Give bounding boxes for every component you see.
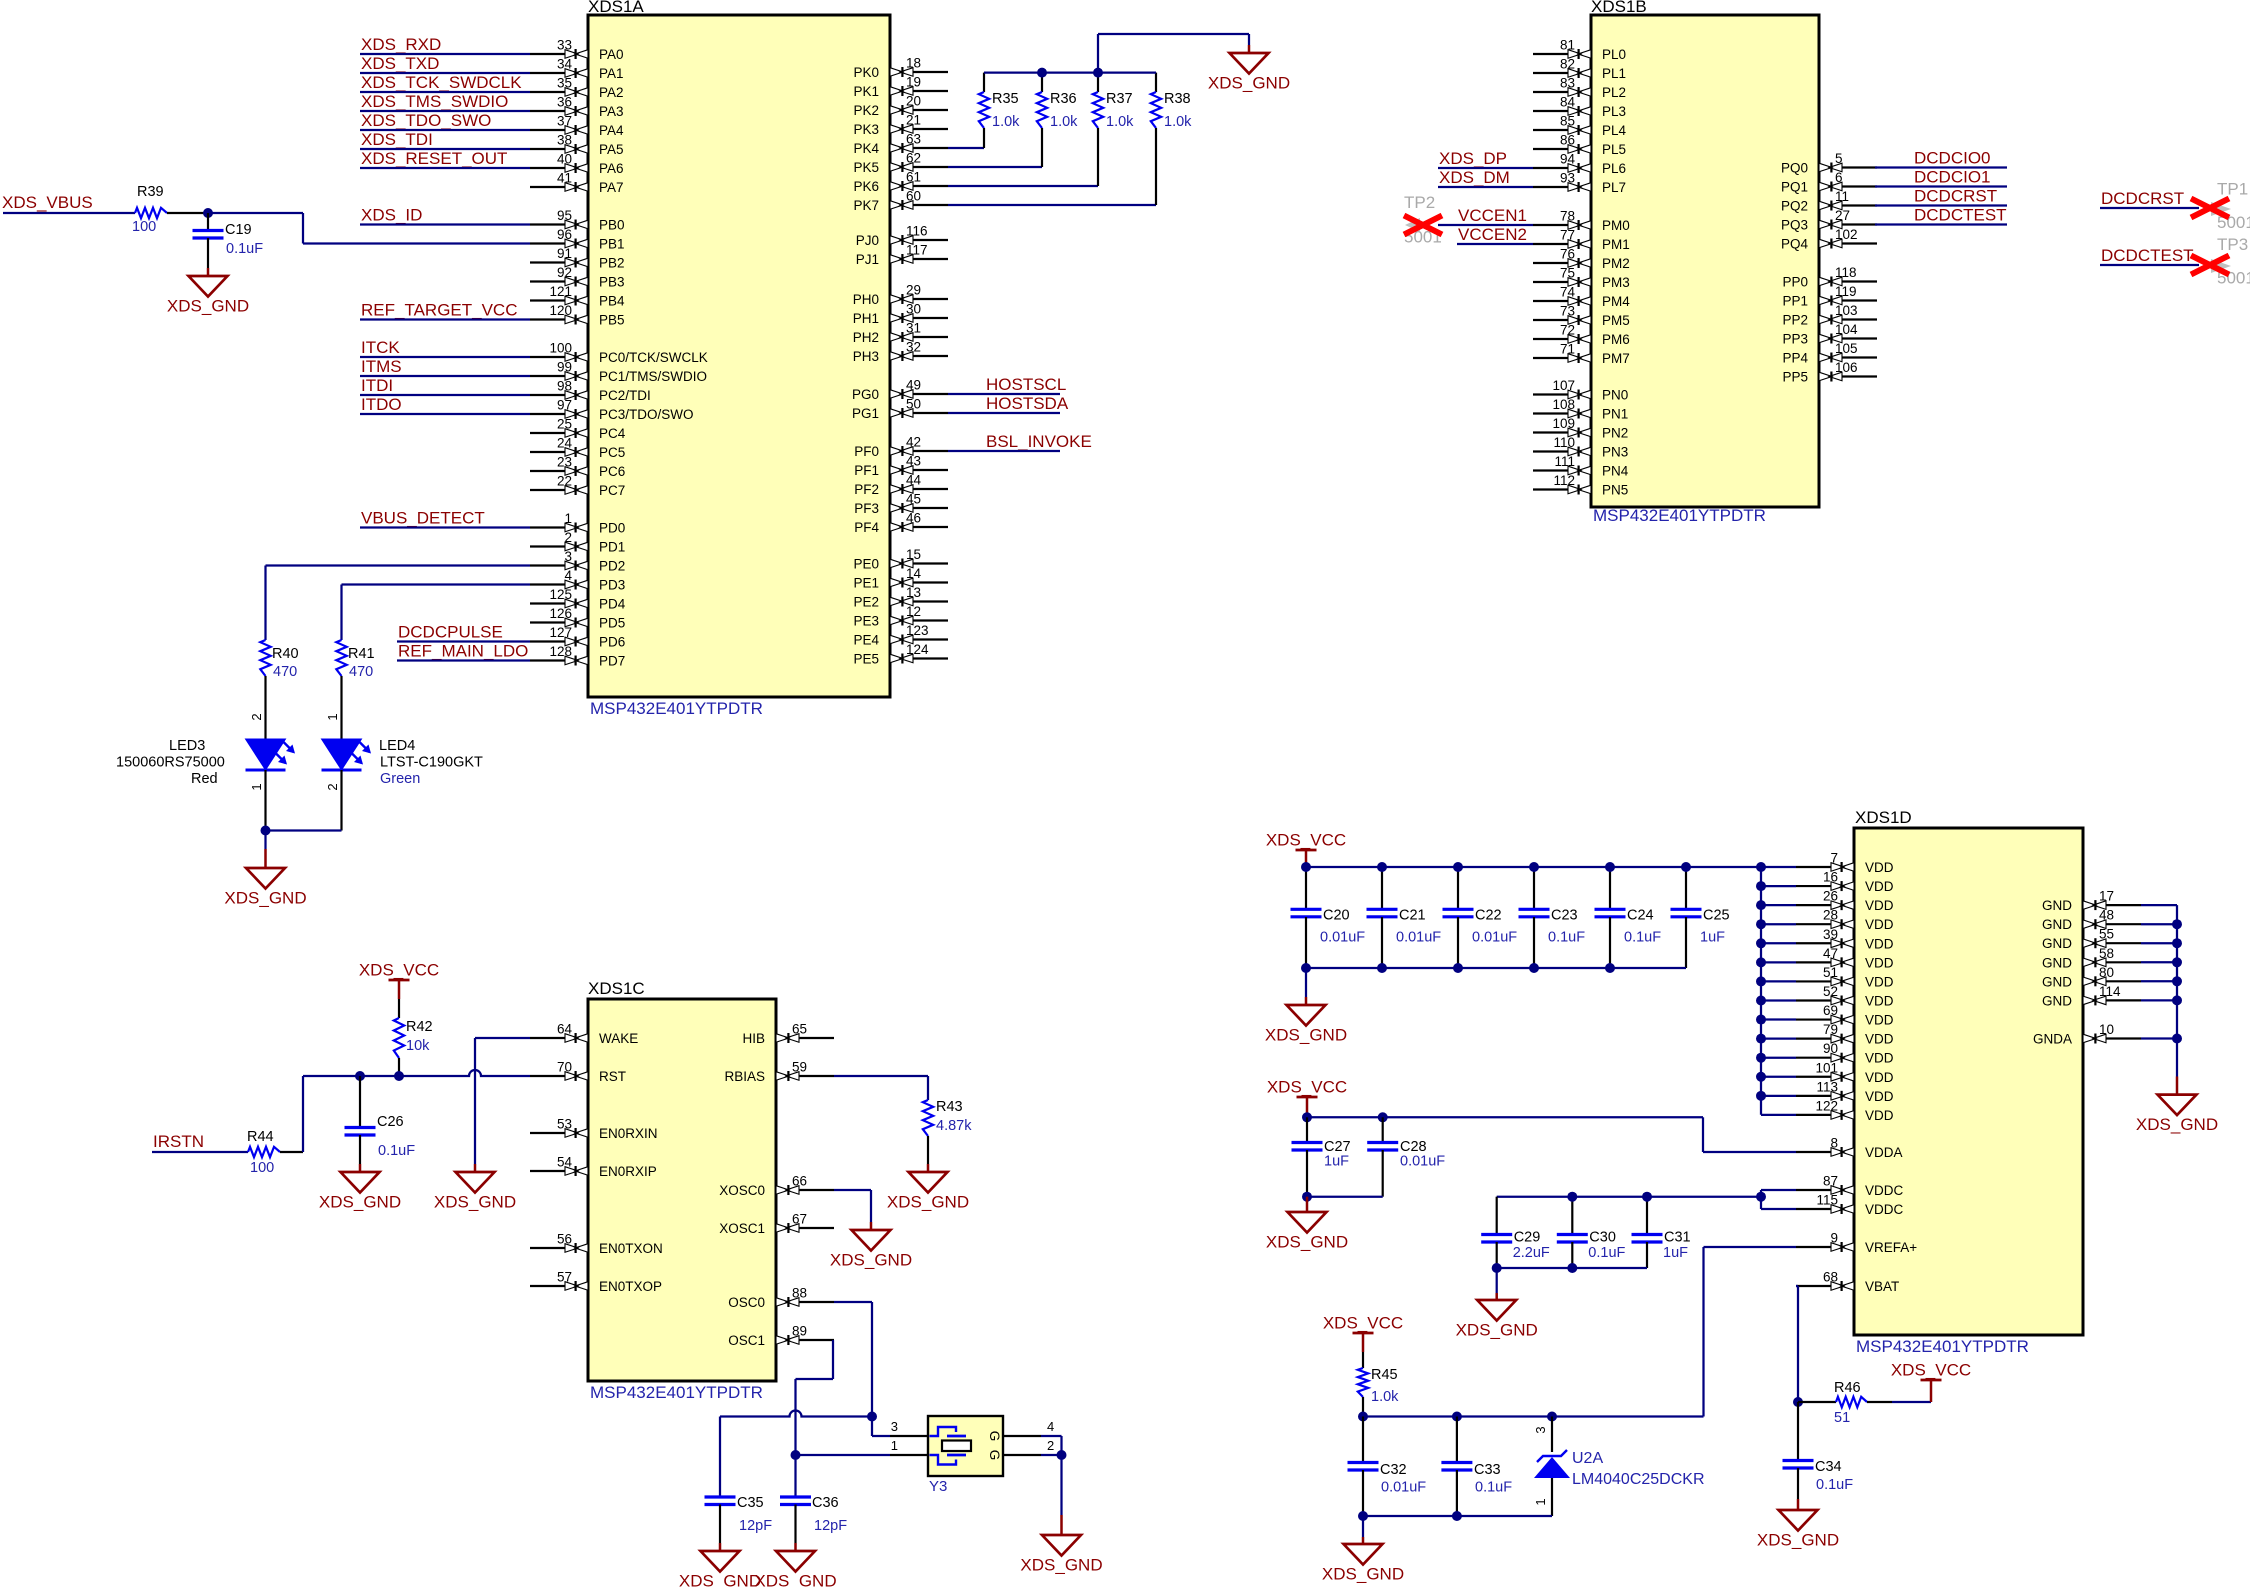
pin 106 PP5 — [1782, 360, 1877, 385]
wire XOSC0 to ground — [834, 1190, 871, 1222]
pin 45 PF3 — [854, 492, 948, 517]
svg-text:PP0: PP0 — [1782, 275, 1808, 290]
svg-text:2: 2 — [325, 783, 340, 790]
pin 41 PA7 — [530, 171, 624, 196]
svg-text:DCDCPULSE: DCDCPULSE — [398, 623, 503, 642]
junction VCC rail cap — [1681, 862, 1691, 872]
capacitor C21 0.01uF — [1367, 867, 1442, 968]
wire VDD bus — [1761, 867, 1796, 1115]
svg-text:PF0: PF0 — [854, 444, 879, 459]
svg-text:PB5: PB5 — [599, 313, 625, 328]
svg-text:PK1: PK1 — [853, 84, 879, 99]
svg-text:123: 123 — [906, 623, 929, 638]
pin 102 PQ4 — [1781, 227, 1877, 252]
svg-text:PD1: PD1 — [599, 540, 625, 555]
svg-text:PK0: PK0 — [853, 65, 879, 80]
svg-text:XDS_VCC: XDS_VCC — [1266, 831, 1346, 850]
svg-text:1: 1 — [1533, 1498, 1548, 1505]
pin 63 PK4 — [853, 132, 948, 157]
capacitor C33 0.1uF — [1441, 1417, 1512, 1517]
pin 89 OSC1 — [728, 1324, 834, 1349]
wire PK4 to R35 — [948, 147, 984, 149]
pin 31 PH2 — [853, 321, 948, 346]
svg-text:C31: C31 — [1664, 1230, 1691, 1246]
pin 50 PG1 — [852, 397, 948, 422]
pin 32 PH3 — [853, 340, 948, 365]
ground XDS_GND (C27) — [1306, 1197, 1309, 1212]
svg-text:GND: GND — [2042, 955, 2072, 970]
net label DCDCIO0 — [1875, 149, 2007, 168]
svg-text:83: 83 — [1560, 76, 1575, 91]
pin 117 PJ1 — [856, 243, 948, 268]
svg-text:XDS_VBUS: XDS_VBUS — [2, 193, 93, 212]
test point TP1 5001 with net DCDCRST — [2100, 180, 2250, 233]
svg-text:PQ1: PQ1 — [1781, 180, 1808, 195]
resistor R41 470 — [336, 640, 374, 739]
svg-text:PQ2: PQ2 — [1781, 199, 1808, 214]
wire VCC rail to VDD bus — [1306, 866, 1761, 868]
svg-text:0.1uF: 0.1uF — [226, 241, 263, 257]
wire C27/C28 bottom — [1307, 1196, 1383, 1198]
net label XDS_DP — [1438, 149, 1533, 168]
svg-text:45: 45 — [906, 492, 921, 507]
pin 2 Y3 — [1003, 1438, 1054, 1455]
pin 113 VDD — [1796, 1079, 1894, 1104]
svg-text:2: 2 — [249, 713, 264, 720]
pin 100 PC0/TCK/SWCLK — [530, 341, 708, 366]
svg-text:PC6: PC6 — [599, 464, 625, 479]
svg-text:PC0/TCK/SWCLK: PC0/TCK/SWCLK — [599, 350, 708, 365]
svg-text:12pF: 12pF — [739, 1518, 772, 1534]
svg-text:PL4: PL4 — [1602, 123, 1627, 138]
svg-text:C21: C21 — [1399, 908, 1426, 924]
junction VDD bus top — [1756, 862, 1766, 872]
svg-text:82: 82 — [1560, 57, 1575, 72]
junction VCC rail cap — [1377, 862, 1387, 872]
svg-text:10: 10 — [2099, 1022, 2114, 1037]
svg-text:XDS1D: XDS1D — [1855, 808, 1912, 827]
net label VCCEN2 — [1457, 225, 1533, 244]
pin 71 PM7 — [1533, 342, 1630, 367]
pin 34 PA1 — [530, 57, 624, 82]
svg-text:109: 109 — [1552, 416, 1575, 431]
pin 115 VDDC — [1796, 1193, 1904, 1218]
svg-text:PD4: PD4 — [599, 597, 626, 612]
svg-text:TP3: TP3 — [2217, 235, 2248, 254]
pin 125 PD4 — [530, 587, 626, 612]
net label ITDO — [360, 395, 530, 414]
resistor R38 1.0k — [1151, 73, 1192, 205]
svg-text:36: 36 — [557, 95, 572, 110]
svg-text:XOSC0: XOSC0 — [719, 1183, 765, 1198]
svg-text:XDS_GND: XDS_GND — [1322, 1565, 1404, 1584]
junction OSC1/C36 node — [791, 1450, 801, 1460]
pin 73 PM5 — [1533, 304, 1630, 329]
pin 56 EN0TXON — [530, 1232, 663, 1257]
pin 69 VDD — [1796, 1003, 1894, 1028]
net label XDS_RXD — [360, 35, 530, 54]
pin 90 VDD — [1796, 1041, 1894, 1066]
pin 9 VREFA+ — [1796, 1231, 1917, 1256]
ground XDS_GND (C19) — [207, 268, 210, 276]
svg-text:PJ0: PJ0 — [856, 233, 879, 248]
wire PK6 to R37 — [948, 185, 1098, 187]
svg-text:44: 44 — [906, 473, 922, 488]
svg-text:55: 55 — [2099, 927, 2114, 942]
net label ITMS — [360, 357, 530, 376]
pin 7 VDD — [1796, 851, 1894, 876]
svg-text:DCDCIO0: DCDCIO0 — [1914, 149, 1991, 168]
resistor R42 10k — [394, 1018, 433, 1076]
svg-text:GND: GND — [2042, 898, 2072, 913]
svg-text:XDS_GND: XDS_GND — [887, 1193, 969, 1212]
junction VDD bus — [1756, 1091, 1766, 1101]
svg-text:PN5: PN5 — [1602, 483, 1628, 498]
svg-text:62: 62 — [906, 151, 921, 166]
svg-text:PK2: PK2 — [853, 103, 879, 118]
svg-text:PL5: PL5 — [1602, 142, 1626, 157]
svg-text:46: 46 — [906, 511, 921, 526]
svg-text:61: 61 — [906, 170, 921, 185]
wire C32/C33/U2A bottom rail — [1363, 1515, 1552, 1517]
capacitor C32 0.01uF — [1348, 1417, 1427, 1517]
svg-text:16: 16 — [1823, 870, 1838, 885]
pin 1 PD0 — [530, 511, 625, 536]
svg-text:13: 13 — [906, 585, 921, 600]
net label XDS_TDO_SWO — [360, 111, 530, 130]
junction VDD bus — [1756, 1053, 1766, 1063]
pin 35 PA2 — [530, 76, 624, 101]
svg-text:41: 41 — [557, 171, 572, 186]
svg-text:1uF: 1uF — [1700, 930, 1725, 946]
svg-text:95: 95 — [557, 208, 572, 223]
svg-text:GND: GND — [2042, 993, 2072, 1008]
svg-text:PM3: PM3 — [1602, 275, 1630, 290]
svg-text:0.01uF: 0.01uF — [1400, 1154, 1445, 1170]
svg-text:XDS_TDI: XDS_TDI — [361, 130, 433, 149]
svg-text:81: 81 — [1560, 38, 1575, 53]
junction GND bus — [2172, 976, 2182, 986]
junction C26 top — [355, 1071, 365, 1081]
junction VDD bus — [1756, 957, 1766, 967]
wire crystal top rail (hop over OSC1) — [720, 1411, 872, 1417]
svg-text:XDS_GND: XDS_GND — [1020, 1556, 1102, 1575]
svg-text:117: 117 — [906, 243, 928, 258]
pin 108 PN1 — [1533, 397, 1628, 422]
ground XDS_GND (C29) — [1496, 1268, 1498, 1300]
svg-text:11: 11 — [1835, 189, 1849, 204]
svg-text:XDS_GND: XDS_GND — [224, 889, 306, 908]
resistor R43 4.87k — [923, 1099, 972, 1164]
svg-text:XDS_GND: XDS_GND — [1266, 1233, 1348, 1252]
pin 15 PE0 — [853, 547, 948, 572]
svg-text:33: 33 — [557, 38, 572, 53]
svg-text:12: 12 — [906, 604, 921, 619]
svg-text:43: 43 — [906, 454, 921, 469]
svg-text:XDS_GND: XDS_GND — [1456, 1321, 1538, 1340]
junction GND bus — [2172, 938, 2182, 948]
svg-text:0.1uF: 0.1uF — [378, 1143, 415, 1159]
junction R42 bottom — [394, 1071, 404, 1081]
svg-text:79: 79 — [1823, 1022, 1838, 1037]
svg-text:3: 3 — [891, 1419, 898, 1434]
power XDS_VCC (C20 bank) — [1266, 831, 1346, 868]
svg-text:PB1: PB1 — [599, 237, 625, 252]
pin 21 PK3 — [853, 113, 948, 138]
svg-text:Y3: Y3 — [929, 1478, 947, 1495]
junction GND bus — [2172, 995, 2182, 1005]
net label REF_MAIN_LDO — [397, 642, 530, 661]
svg-text:121: 121 — [549, 284, 572, 299]
pin 105 PP4 — [1782, 341, 1877, 366]
pin 3 PD2 — [530, 549, 625, 574]
pin 1 Y3 — [890, 1438, 928, 1455]
svg-text:96: 96 — [557, 227, 572, 242]
pin 62 PK5 — [853, 151, 948, 176]
svg-text:MSP432E401YTPDTR: MSP432E401YTPDTR — [590, 1383, 763, 1402]
svg-text:C35: C35 — [737, 1495, 764, 1511]
svg-text:VDD: VDD — [1865, 1032, 1894, 1047]
pin 88 OSC0 — [728, 1286, 834, 1311]
svg-text:XDS_VCC: XDS_VCC — [1891, 1361, 1971, 1380]
svg-text:XDS_GND: XDS_GND — [830, 1251, 912, 1270]
svg-text:PA4: PA4 — [599, 123, 624, 138]
svg-text:PF4: PF4 — [854, 520, 879, 535]
svg-text:42: 42 — [906, 435, 921, 450]
ground XDS_GND (C35) — [719, 1543, 722, 1551]
junction VDD bus — [1756, 919, 1766, 929]
pin 5 PQ0 — [1781, 151, 1877, 176]
ground XDS_GND (C26) — [359, 1164, 362, 1172]
svg-text:100: 100 — [549, 341, 572, 356]
capacitor C28 0.01uF — [1367, 1117, 1445, 1196]
junction C30 top — [1567, 1192, 1577, 1202]
svg-text:57: 57 — [557, 1270, 572, 1285]
power XDS_VCC (R45) — [1323, 1314, 1403, 1361]
svg-text:RST: RST — [599, 1069, 626, 1084]
svg-text:118: 118 — [1835, 265, 1857, 280]
pin 16 VDD — [1796, 870, 1894, 895]
svg-text:VCCEN1: VCCEN1 — [1458, 206, 1527, 225]
pin 64 WAKE — [530, 1022, 638, 1047]
svg-text:C23: C23 — [1551, 908, 1578, 924]
pin 18 PK0 — [853, 56, 948, 81]
pin 13 PE2 — [853, 585, 948, 610]
svg-text:HIB: HIB — [742, 1031, 765, 1046]
svg-text:R42: R42 — [406, 1019, 433, 1035]
svg-text:90: 90 — [1823, 1041, 1838, 1056]
svg-text:XDS_GND: XDS_GND — [1265, 1026, 1347, 1045]
svg-text:PB4: PB4 — [599, 294, 625, 309]
pin 4 PD3 — [530, 568, 625, 593]
svg-text:3: 3 — [564, 549, 572, 564]
svg-text:40: 40 — [557, 152, 572, 167]
junction VDD bus — [1756, 900, 1766, 910]
junction GNDA — [2172, 1034, 2182, 1044]
net label XDS_TCK_SWDCLK — [360, 73, 530, 92]
svg-text:49: 49 — [906, 378, 921, 393]
svg-text:PE3: PE3 — [853, 614, 879, 629]
svg-text:14: 14 — [906, 566, 922, 581]
pin 128 PD7 — [530, 644, 625, 669]
svg-text:108: 108 — [1552, 397, 1575, 412]
junction LED ground node — [261, 826, 271, 836]
resistor R40 470 — [260, 640, 298, 739]
svg-text:VBUS_DETECT: VBUS_DETECT — [361, 509, 485, 528]
pin 77 PM1 — [1533, 228, 1630, 253]
svg-text:ITDO: ITDO — [361, 395, 402, 414]
svg-text:101: 101 — [1815, 1060, 1838, 1075]
svg-text:74: 74 — [1560, 285, 1576, 300]
svg-text:1.0k: 1.0k — [1050, 114, 1078, 130]
capacitor C35 12pF — [705, 1495, 773, 1543]
capacitor C30 0.1uF — [1557, 1197, 1626, 1268]
pin 124 PE5 — [853, 642, 948, 667]
svg-text:R39: R39 — [137, 184, 164, 200]
svg-text:21: 21 — [906, 113, 921, 128]
svg-text:R46: R46 — [1834, 1380, 1861, 1396]
pin 109 PN2 — [1533, 416, 1628, 441]
svg-text:470: 470 — [273, 664, 297, 680]
svg-text:EN0TXOP: EN0TXOP — [599, 1279, 662, 1294]
pin 11 PQ2 — [1781, 189, 1877, 214]
svg-text:116: 116 — [906, 224, 928, 239]
svg-text:R38: R38 — [1164, 91, 1191, 107]
svg-text:PD5: PD5 — [599, 616, 625, 631]
pin 43 PF1 — [854, 454, 948, 479]
svg-text:Green: Green — [380, 771, 420, 787]
svg-text:C34: C34 — [1815, 1459, 1842, 1475]
pin 57 EN0TXOP — [530, 1270, 662, 1295]
svg-text:94: 94 — [1560, 152, 1576, 167]
svg-text:1.0k: 1.0k — [1164, 114, 1192, 130]
wire VDDA rail — [1307, 1117, 1796, 1152]
junction VCC rail cap — [1605, 862, 1615, 872]
svg-text:103: 103 — [1835, 303, 1858, 318]
ground XDS_GND (R43) — [927, 1164, 930, 1172]
svg-text:4: 4 — [564, 568, 572, 583]
svg-text:C25: C25 — [1703, 908, 1730, 924]
svg-text:EN0RXIP: EN0RXIP — [599, 1164, 657, 1179]
svg-text:85: 85 — [1560, 114, 1575, 129]
svg-text:105: 105 — [1835, 341, 1858, 356]
pin 17 GND — [2042, 889, 2141, 914]
wire LED cathodes junction — [266, 770, 342, 849]
svg-text:GND: GND — [2042, 936, 2072, 951]
pin 118 PP0 — [1782, 265, 1877, 290]
svg-text:67: 67 — [792, 1212, 807, 1227]
svg-text:LED3: LED3 — [169, 738, 205, 754]
svg-text:LED4: LED4 — [379, 738, 415, 754]
svg-text:PC5: PC5 — [599, 445, 625, 460]
svg-text:PA5: PA5 — [599, 142, 624, 157]
svg-text:25: 25 — [557, 417, 572, 432]
svg-text:PC2/TDI: PC2/TDI — [599, 388, 651, 403]
svg-text:IRSTN: IRSTN — [153, 1132, 204, 1151]
pin 127 PD6 — [530, 625, 625, 650]
svg-text:WAKE: WAKE — [599, 1031, 638, 1046]
capacitor C22 0.01uF — [1443, 867, 1518, 968]
pin 67 XOSC1 — [719, 1212, 834, 1237]
svg-text:PN2: PN2 — [1602, 426, 1628, 441]
svg-text:PM4: PM4 — [1602, 294, 1630, 309]
svg-text:80: 80 — [2099, 965, 2114, 980]
pin 42 PF0 — [854, 435, 948, 460]
svg-text:R44: R44 — [247, 1129, 274, 1145]
svg-text:C33: C33 — [1474, 1462, 1501, 1478]
pin 33 PA0 — [530, 38, 624, 63]
svg-text:PL2: PL2 — [1602, 85, 1626, 100]
test point TP2 5001 (no-connect X) — [1404, 193, 1442, 247]
IC U-XDS1A MSP432E401YTPDTR block — [588, 0, 890, 718]
svg-text:PB0: PB0 — [599, 218, 625, 233]
svg-text:72: 72 — [1560, 323, 1575, 338]
svg-text:1uF: 1uF — [1324, 1154, 1349, 1170]
net label XDS_ID — [360, 206, 530, 225]
svg-text:PA6: PA6 — [599, 161, 624, 176]
net label ITDI — [360, 376, 530, 395]
svg-text:PL7: PL7 — [1602, 180, 1626, 195]
resistor R46 51 — [1798, 1380, 1931, 1426]
svg-text:PK6: PK6 — [853, 179, 879, 194]
pin 98 PC2/TDI — [530, 379, 651, 404]
pin 74 PM4 — [1533, 285, 1630, 310]
wire WAKE to ground — [475, 1038, 530, 1164]
svg-text:12pF: 12pF — [814, 1518, 847, 1534]
svg-text:2: 2 — [1047, 1438, 1054, 1453]
svg-text:R35: R35 — [992, 91, 1019, 107]
wire Y3 ground pins — [1041, 1436, 1062, 1515]
svg-text:BSL_INVOKE: BSL_INVOKE — [986, 432, 1092, 451]
junction VDDC rail — [1756, 1192, 1766, 1202]
pin 72 PM6 — [1533, 323, 1630, 348]
svg-text:PA2: PA2 — [599, 85, 624, 100]
svg-text:65: 65 — [792, 1022, 807, 1037]
wire OSC0 to crystal — [834, 1302, 890, 1436]
pin 26 VDD — [1796, 889, 1894, 914]
svg-text:C36: C36 — [812, 1495, 839, 1511]
svg-text:76: 76 — [1560, 247, 1575, 262]
junction cap bottom rail — [1377, 963, 1387, 973]
svg-text:1.0k: 1.0k — [992, 114, 1020, 130]
svg-text:VDDA: VDDA — [1865, 1145, 1903, 1160]
svg-text:86: 86 — [1560, 133, 1575, 148]
pin 6 PQ1 — [1781, 170, 1877, 195]
svg-text:20: 20 — [906, 94, 921, 109]
net label VBUS_DETECT — [360, 509, 530, 528]
svg-text:C32: C32 — [1380, 1462, 1407, 1478]
pin 93 PL7 — [1533, 171, 1626, 196]
junction C31 top — [1642, 1192, 1652, 1202]
svg-text:PQ3: PQ3 — [1781, 218, 1808, 233]
svg-text:126: 126 — [549, 606, 572, 621]
net label XDS_VBUS — [2, 193, 135, 213]
svg-text:4.87k: 4.87k — [936, 1118, 972, 1134]
svg-text:110: 110 — [1553, 435, 1575, 450]
svg-text:78: 78 — [1560, 209, 1575, 224]
svg-text:PE1: PE1 — [853, 576, 879, 591]
svg-text:54: 54 — [557, 1155, 573, 1170]
svg-text:59: 59 — [792, 1060, 807, 1075]
svg-text:REF_MAIN_LDO: REF_MAIN_LDO — [398, 642, 528, 661]
pin 70 RST — [530, 1060, 626, 1085]
svg-text:XDS_RESET_OUT: XDS_RESET_OUT — [361, 149, 507, 168]
wire resistor top bus — [984, 71, 1156, 73]
svg-text:77: 77 — [1560, 228, 1575, 243]
svg-text:51: 51 — [1823, 965, 1838, 980]
svg-text:100: 100 — [250, 1160, 274, 1176]
svg-text:56: 56 — [557, 1232, 572, 1247]
